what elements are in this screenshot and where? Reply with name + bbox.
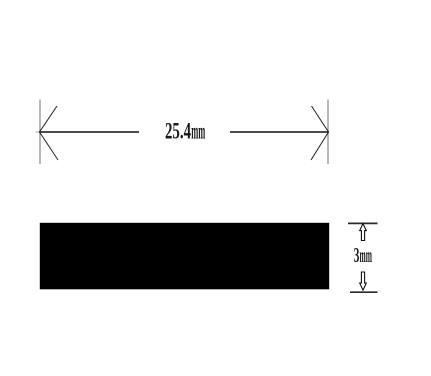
bar (black rectangle) — [40, 223, 329, 289]
extension line left (vertical) — [39, 100, 41, 165]
extension line bottom right (horizontal) — [350, 291, 378, 293]
dimension line right segment — [230, 131, 329, 133]
dimension label 3mm — [354, 243, 372, 267]
svg-text:25.4: 25.4 — [165, 119, 191, 144]
arrowhead left upper barb — [40, 106, 58, 132]
hollow up arrow — [360, 224, 367, 241]
extension line top right (horizontal) — [348, 222, 378, 224]
svg-text:mm: mm — [191, 119, 205, 144]
arrowhead right upper barb — [312, 106, 329, 132]
hollow down arrow — [360, 272, 367, 290]
dimension label 25.4mm — [165, 119, 205, 144]
dimension line left overshoot tick — [36, 131, 41, 133]
svg-text:3: 3 — [354, 243, 360, 267]
extension line right (vertical) — [327, 100, 329, 165]
svg-text:mm: mm — [360, 243, 373, 267]
dimension line left segment — [39, 131, 139, 133]
arrowhead right lower barb — [311, 132, 329, 160]
arrowhead left lower barb — [40, 132, 59, 160]
